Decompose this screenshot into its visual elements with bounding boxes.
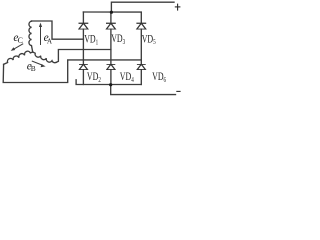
leg 1 vertical — [82, 12, 84, 85]
diode VD6 — [137, 64, 146, 69]
top bus — [83, 11, 141, 13]
diode VD5 — [136, 23, 146, 29]
svg-text:VD3: VD3 — [111, 31, 125, 46]
minus drop and out wire — [111, 85, 176, 95]
arrow e_B — [32, 61, 46, 67]
svg-text:B: B — [31, 64, 36, 73]
svg-text:VD1: VD1 — [84, 32, 98, 47]
winding A coil — [29, 21, 33, 52]
svg-text:VD4: VD4 — [120, 69, 134, 84]
junction dot bottom — [109, 83, 112, 86]
diode VD1 — [79, 23, 89, 29]
winding B coil — [33, 52, 57, 63]
svg-text:VD2: VD2 — [87, 69, 101, 84]
svg-text:C: C — [18, 36, 23, 45]
leg 2 vertical — [110, 12, 112, 85]
wire phase A: top — [32, 21, 84, 39]
diode VD4 — [107, 64, 116, 69]
svg-text:VD5: VD5 — [142, 31, 156, 46]
diode VD2 — [79, 64, 88, 69]
svg-text:VD6: VD6 — [152, 69, 166, 84]
wire phase C — [3, 60, 141, 83]
winding C coil — [4, 51, 33, 64]
leg 3 vertical — [140, 12, 142, 84]
minus terminal — [176, 90, 180, 92]
bottom bus — [76, 80, 141, 85]
diode VD3 — [106, 23, 116, 29]
plus riser and out wire — [111, 2, 174, 12]
arrow e_A — [39, 23, 42, 45]
wire phase B — [56, 50, 111, 63]
svg-text:A: A — [47, 37, 53, 45]
junction dot top — [110, 11, 113, 14]
arrow e_C — [11, 44, 24, 51]
plus terminal — [175, 4, 181, 11]
